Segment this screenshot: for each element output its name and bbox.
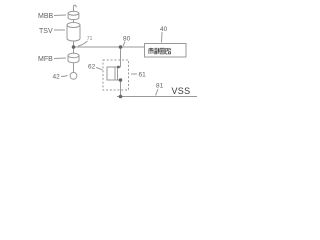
svg-text:81: 81	[156, 83, 164, 90]
svg-text:62: 62	[88, 64, 96, 71]
svg-text:71: 71	[87, 36, 93, 42]
svg-text:VSS: VSS	[172, 86, 191, 96]
svg-text:MFB: MFB	[38, 56, 53, 63]
svg-text:MBB: MBB	[38, 13, 54, 20]
svg-text:TSV: TSV	[39, 28, 53, 35]
svg-text:42: 42	[53, 74, 61, 81]
svg-text:61: 61	[139, 72, 147, 79]
svg-text:80: 80	[123, 36, 131, 43]
svg-text:40: 40	[160, 26, 168, 33]
